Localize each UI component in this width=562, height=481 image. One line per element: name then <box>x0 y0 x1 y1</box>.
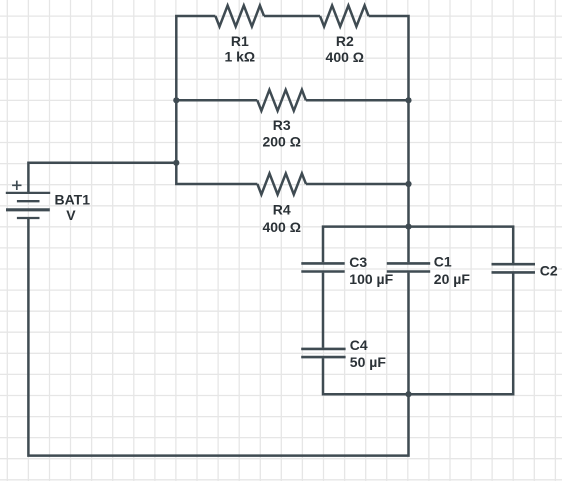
node: battery junction <box>173 160 179 166</box>
svg-text:R1: R1 <box>231 33 249 49</box>
wire: cap box left middle (C3 to C4) <box>322 273 325 348</box>
svg-text:400 Ω: 400 Ω <box>326 49 364 65</box>
node: cap box bottom junction <box>405 391 411 397</box>
node: left R3 junction <box>173 97 179 103</box>
wire: main vertical lower + bottom wire + battery lower vertical <box>28 218 408 456</box>
svg-text:BAT1: BAT1 <box>55 192 91 208</box>
resistor R3 <box>257 90 306 111</box>
svg-text:R4: R4 <box>273 202 291 218</box>
svg-text:1 kΩ: 1 kΩ <box>224 49 255 65</box>
wire: R2 right lead + main vertical upper <box>369 16 409 262</box>
battery BAT1 <box>6 181 50 218</box>
capacitor C4 plates <box>301 349 345 357</box>
resistor R4 <box>257 174 306 195</box>
capacitor C1 plates <box>387 263 430 271</box>
svg-text:20 µF: 20 µF <box>434 271 471 287</box>
svg-text:400 Ω: 400 Ω <box>262 219 300 235</box>
svg-text:50 µF: 50 µF <box>350 354 387 370</box>
capacitor C3 plates <box>301 263 344 271</box>
wire: R3 left lead <box>176 99 257 102</box>
wire: battery top wire + stub <box>28 163 176 193</box>
resistor R2 <box>320 6 369 27</box>
wire: cap box left upper + top + right upper <box>323 227 513 264</box>
node: cap box top junction <box>405 224 411 230</box>
wire: R4 right lead <box>306 183 409 186</box>
node: right R3 junction <box>405 97 411 103</box>
node: R4 right junction <box>405 181 411 187</box>
svg-text:R3: R3 <box>273 117 291 133</box>
resistor R1 <box>215 6 264 27</box>
svg-text:C3: C3 <box>349 254 367 270</box>
svg-text:V: V <box>66 207 76 223</box>
capacitor C2 plates <box>492 264 536 272</box>
wire: top lead + left vertical + R4 left lead <box>176 16 257 184</box>
svg-text:C1: C1 <box>434 254 452 270</box>
svg-text:100 µF: 100 µF <box>349 271 393 287</box>
svg-text:R2: R2 <box>336 33 354 49</box>
svg-text:C4: C4 <box>350 337 368 353</box>
svg-text:200 Ω: 200 Ω <box>262 134 300 150</box>
wire between R1 and R2 <box>264 15 320 18</box>
wire: R3 right lead <box>306 99 409 102</box>
svg-text:C2: C2 <box>540 263 558 279</box>
wire: cap box left lower + bottom + right lower <box>323 274 513 395</box>
